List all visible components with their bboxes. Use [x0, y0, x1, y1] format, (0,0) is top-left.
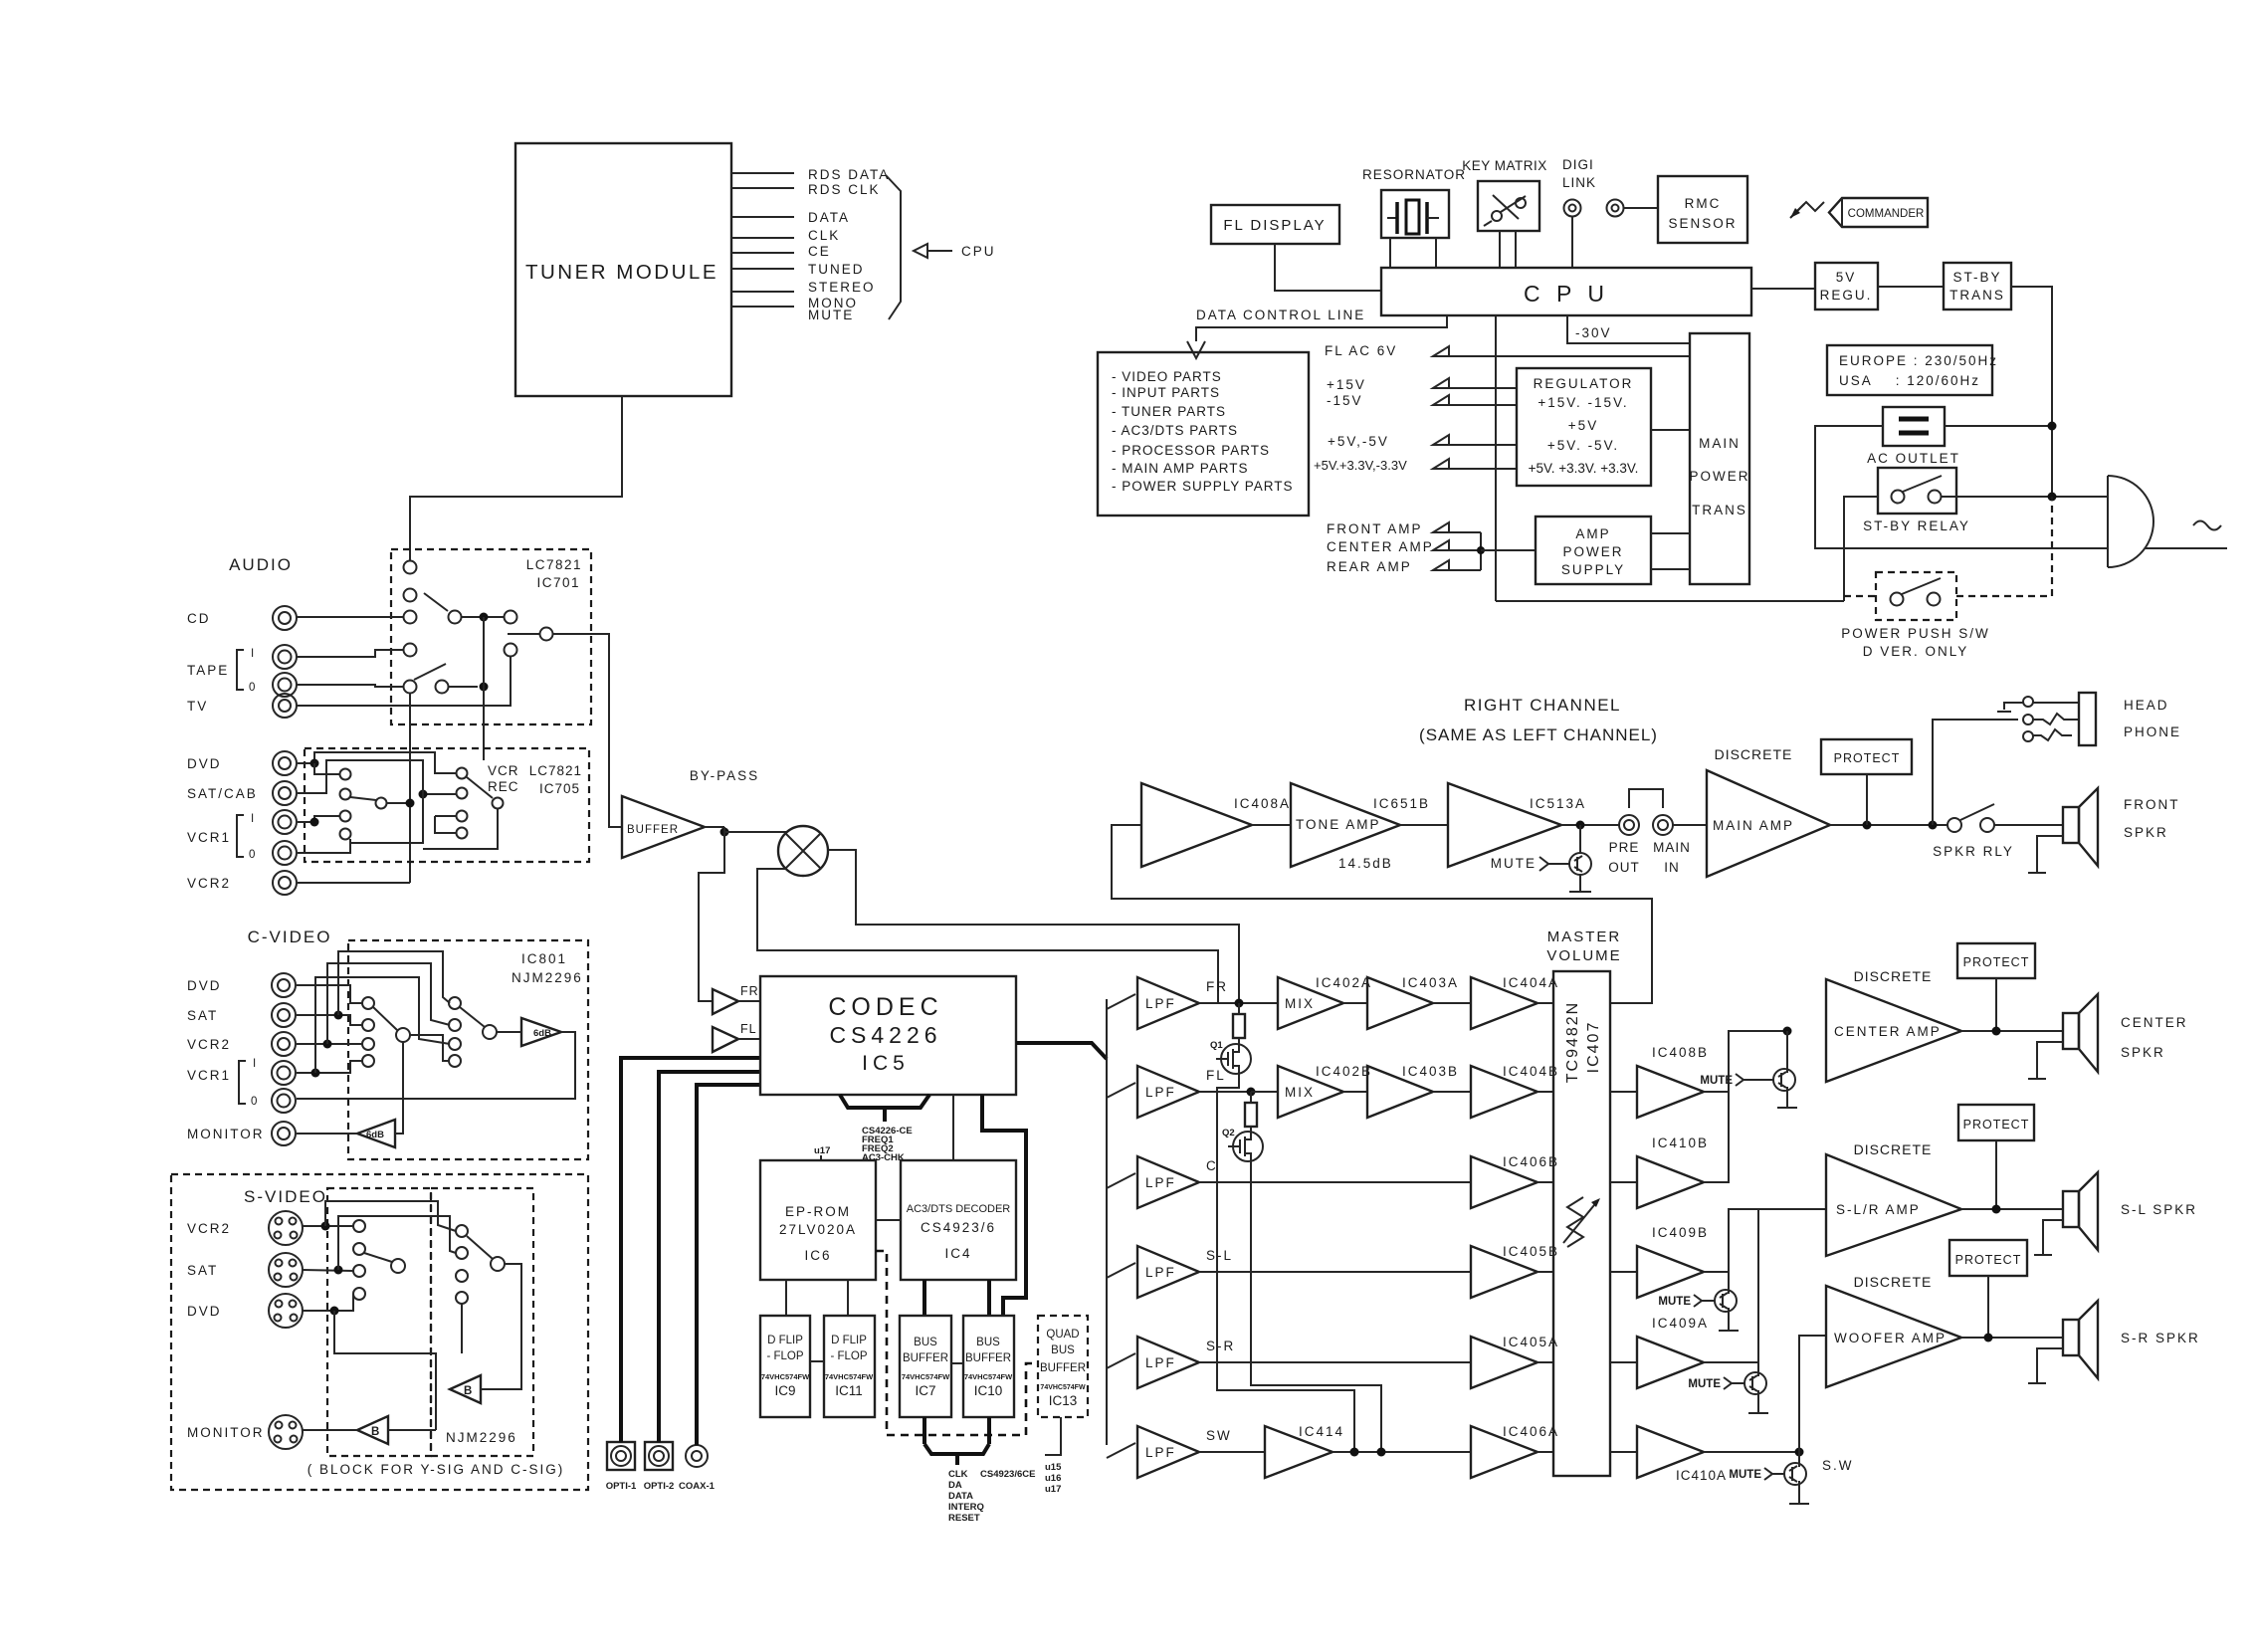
svg-text:IC701: IC701 [536, 575, 580, 590]
svg-text:INTERQ: INTERQ [948, 1502, 984, 1513]
wire RDS DATA [731, 167, 890, 182]
connector MAIN IN [1653, 815, 1691, 875]
block RMC SENSOR [1658, 176, 1747, 243]
box y-sig switch [327, 1188, 431, 1456]
wire CLK [731, 228, 840, 243]
connector DVD cvideo [187, 973, 296, 997]
svg-text:IC407: IC407 [1585, 1021, 1602, 1074]
wire CD input [297, 616, 403, 618]
wire IC705 internal mesh [298, 752, 498, 883]
svg-text:S-R: S-R [1206, 1339, 1235, 1353]
svg-text:DVD: DVD [187, 1304, 222, 1319]
connector OPTI-2 [644, 1442, 675, 1492]
bus dashed decoder host [876, 1251, 1038, 1435]
box c-sig switch [431, 1188, 533, 1456]
svg-text:FL: FL [1206, 1068, 1226, 1083]
wire regulator to trans [1651, 429, 1690, 431]
svg-text:DISCRETE: DISCRETE [1854, 1141, 1933, 1157]
connector DIGI LINK [1562, 157, 1596, 268]
amp 6dB monitor [357, 1120, 395, 1147]
svg-text:0: 0 [249, 682, 255, 694]
amp IC404A [1433, 975, 1559, 1029]
svg-text:DISCRETE: DISCRETE [1854, 968, 1933, 984]
connector RMC jack [1607, 200, 1659, 217]
amp IC408B [1610, 1045, 1709, 1118]
svg-text:AUDIO: AUDIO [229, 555, 293, 574]
svg-text:LPF: LPF [1145, 1175, 1176, 1190]
svg-text:QUAD: QUAD [1046, 1329, 1079, 1341]
svg-text:SPKR RLY: SPKR RLY [1933, 844, 2014, 859]
svg-text:TAPE: TAPE [187, 663, 229, 678]
svg-text:+5V,-5V: +5V,-5V [1328, 434, 1389, 449]
svg-text:BY-PASS: BY-PASS [690, 768, 759, 783]
connector TAPE 0 [273, 673, 297, 697]
amp IC409B [1610, 1225, 1709, 1298]
svg-text:IN: IN [1664, 860, 1680, 875]
wire CPU down bus [1495, 315, 1497, 601]
switch arms IC701 [414, 593, 448, 680]
svg-text:S-L/R AMP: S-L/R AMP [1836, 1202, 1921, 1217]
svg-text:AC3-CHK: AC3-CHK [862, 1152, 905, 1163]
wire 6dB loop to VCR1 out [297, 1032, 575, 1099]
svg-text:MONITOR: MONITOR [187, 1425, 265, 1440]
amp MIX IC402B [1251, 1064, 1372, 1118]
svg-text:6dB: 6dB [366, 1130, 384, 1140]
wire RDS CLK [731, 182, 881, 197]
svg-text:IC405A: IC405A [1503, 1335, 1559, 1349]
wire amp rails junction [1449, 532, 1536, 570]
wire Q2 to SW sum [1251, 1160, 1381, 1452]
plug AC mains [2108, 476, 2227, 567]
potentiometer master volume [1563, 1197, 1600, 1247]
svg-text:FL DISPLAY: FL DISPLAY [1223, 217, 1326, 234]
ic video switch IC801 NJM2296 [348, 940, 588, 1159]
wire Q1 to SW sum [1217, 1073, 1354, 1452]
transistor ic409b mute [1658, 1272, 1739, 1331]
label +15V -15V [1327, 377, 1517, 408]
block REGULATOR [1517, 368, 1651, 486]
svg-text:- MAIN AMP PARTS: - MAIN AMP PARTS [1112, 461, 1249, 476]
svg-text:Q1: Q1 [1210, 1040, 1223, 1051]
svg-text:IC408B: IC408B [1652, 1045, 1709, 1060]
lpf C [1107, 1156, 1218, 1208]
box s-video outer [171, 1174, 588, 1490]
transistor Q1 [1210, 1040, 1251, 1074]
speaker S-R SPKR [2028, 1301, 2200, 1383]
wire woofer feed [1704, 1336, 1826, 1457]
svg-text:IC410B: IC410B [1652, 1136, 1709, 1150]
note EUROPE USA frequency [1827, 345, 1998, 395]
svg-text:- FLOP: - FLOP [766, 1350, 803, 1362]
wire FL DISPLAY to CPU [1275, 244, 1381, 291]
svg-text:S.W: S.W [1822, 1458, 1854, 1473]
svg-text:( BLOCK FOR Y-SIG AND C-SIG): ( BLOCK FOR Y-SIG AND C-SIG) [307, 1462, 565, 1477]
svg-text:VCR1: VCR1 [187, 1068, 231, 1083]
svg-text:PROTECT: PROTECT [1963, 1118, 2030, 1132]
svg-text:+15V. -15V.: +15V. -15V. [1537, 395, 1628, 410]
svg-text:CS4923/6CE: CS4923/6CE [980, 1469, 1035, 1480]
resistor R-FL [1245, 1092, 1257, 1133]
resonator X701 [1362, 167, 1466, 238]
svg-text:MAIN AMP: MAIN AMP [1713, 818, 1794, 833]
wire svideo crossovers [325, 1201, 462, 1430]
svg-text:POWER: POWER [1689, 469, 1749, 484]
svg-text:SAT: SAT [187, 1008, 218, 1023]
svg-text:PRE: PRE [1609, 840, 1640, 855]
label block for y-sig [307, 1462, 565, 1477]
label VCR1 bracket cvideo [187, 1058, 257, 1108]
svg-text:IC408A: IC408A [1234, 796, 1291, 811]
svg-text:IC403A: IC403A [1402, 975, 1459, 990]
ic master volume TC9482N IC407 [1553, 971, 1610, 1476]
label DISCRETE woofer [1854, 1274, 1933, 1290]
wire eprom to decoder [876, 1219, 901, 1221]
wire quad buffer out [1045, 1417, 1062, 1495]
wire surround feed column [1704, 1209, 1826, 1362]
svg-text:ST-BY RELAY: ST-BY RELAY [1863, 518, 1970, 533]
wire STEREO [731, 280, 876, 295]
svg-text:+15V: +15V [1327, 377, 1366, 392]
svg-text:AMP: AMP [1575, 526, 1610, 541]
svg-text:S-L SPKR: S-L SPKR [2121, 1202, 2197, 1217]
amp FL adc buffer [713, 1022, 757, 1052]
connector TAPE I [273, 645, 297, 669]
svg-text:SAT: SAT [187, 1263, 218, 1278]
label AUDIO [229, 555, 293, 574]
svg-text:LINK: LINK [1562, 175, 1596, 190]
svg-text:BUFFER: BUFFER [903, 1352, 948, 1364]
svg-text:PHONE: PHONE [2124, 724, 2181, 739]
wire B csig loop [481, 1264, 521, 1389]
lpf S-R [1107, 1337, 1235, 1388]
svg-text:IC402B: IC402B [1316, 1064, 1372, 1079]
svg-text:MIX: MIX [1285, 996, 1315, 1011]
amp IC406B [1199, 1154, 1559, 1208]
svg-text:I: I [251, 813, 254, 825]
svg-text:- INPUT PARTS: - INPUT PARTS [1112, 385, 1220, 400]
svg-text:VCR: VCR [488, 763, 519, 778]
svg-text:RDS CLK: RDS CLK [808, 182, 881, 197]
svg-text:u17: u17 [814, 1145, 830, 1156]
svg-text:74VHC574FW: 74VHC574FW [761, 1372, 810, 1381]
amp TONE AMP IC651B [1252, 783, 1430, 871]
connector VCR1 I cvideo [272, 1061, 296, 1085]
wire tuner to audio switch [410, 396, 622, 560]
label DISCRETE main [1715, 746, 1793, 762]
speaker CENTER SPKR [2028, 994, 2188, 1079]
svg-text:74VHC574FW: 74VHC574FW [1040, 1384, 1086, 1391]
wire cvideo record loops [315, 951, 450, 1073]
wire power bottom line [1496, 600, 1844, 602]
svg-text:S-L: S-L [1206, 1248, 1233, 1263]
svg-text:u17: u17 [1045, 1484, 1061, 1495]
ic D FLIP-FLOP IC9 [760, 1316, 810, 1417]
block MAIN POWER TRANS [1689, 333, 1749, 584]
svg-text:- TUNER PARTS: - TUNER PARTS [1112, 404, 1226, 419]
svg-text:FRONT AMP: FRONT AMP [1327, 521, 1423, 536]
svg-text:IC4: IC4 [944, 1246, 971, 1261]
svg-text:IC10: IC10 [974, 1383, 1003, 1398]
svg-text:-30V: -30V [1575, 325, 1612, 340]
svg-text:D VER. ONLY: D VER. ONLY [1863, 644, 1969, 659]
svg-text:B: B [464, 1385, 472, 1397]
wire resonator pins [1390, 238, 1436, 268]
lpf S-L [1107, 1246, 1233, 1298]
svg-text:IC406A: IC406A [1503, 1424, 1559, 1439]
svg-text:LPF: LPF [1145, 1445, 1176, 1460]
lpf FR [1107, 977, 1228, 1029]
svg-text:REC: REC [488, 779, 519, 794]
connector VCR1 I [273, 810, 297, 834]
label FL AC 6V [1325, 343, 1690, 358]
connector VCR2 svideo [187, 1211, 303, 1245]
jack HEAD PHONE [1997, 693, 2181, 745]
svg-text:COMMANDER: COMMANDER [1848, 208, 1925, 220]
svg-text:(SAME AS LEFT CHANNEL): (SAME AS LEFT CHANNEL) [1419, 725, 1658, 744]
wire amp supply to trans [1651, 533, 1690, 569]
ic QUAD BUS BUFFER IC13 [1038, 1316, 1088, 1417]
svg-text:S-VIDEO: S-VIDEO [244, 1187, 327, 1206]
label NJM2296 svideo [446, 1430, 517, 1445]
svg-text:Q2: Q2 [1222, 1128, 1235, 1138]
connector CD [187, 606, 297, 630]
svg-text:74VHC574FW: 74VHC574FW [964, 1372, 1013, 1381]
amp WOOFER AMP [1826, 1286, 1961, 1387]
svg-text:FRONT: FRONT [2124, 797, 2180, 812]
svg-text:CPU: CPU [961, 244, 996, 259]
svg-text:C P U: C P U [1524, 281, 1609, 307]
svg-text:DISCRETE: DISCRETE [1854, 1274, 1933, 1290]
speaker FRONT SPKR [2028, 788, 2180, 873]
svg-text:OPTI-2: OPTI-2 [644, 1481, 675, 1492]
svg-text:IC9: IC9 [774, 1383, 795, 1398]
svg-text:DATA: DATA [948, 1491, 973, 1502]
svg-text:I: I [253, 1058, 256, 1070]
node FL junction [1199, 1088, 1278, 1097]
wire headphone feed [1933, 720, 2018, 825]
arrow CPU [914, 244, 996, 259]
label +5V -5V [1328, 434, 1517, 449]
label C-VIDEO [248, 928, 332, 946]
svg-text:- AC3/DTS PARTS: - AC3/DTS PARTS [1112, 423, 1238, 438]
connector OPTI-1 [606, 1442, 637, 1492]
switch arms IC705 [350, 777, 493, 800]
svg-text:REGU.: REGU. [1820, 288, 1873, 303]
wire center feed column [1704, 1027, 1792, 1183]
switch arms IC801 [373, 1007, 485, 1030]
bracket tuner signals [886, 175, 901, 319]
amp IC409A [1610, 1316, 1709, 1388]
svg-text:KEY MATRIX: KEY MATRIX [1462, 158, 1547, 173]
commander remote [1790, 198, 1928, 227]
svg-text:B: B [371, 1426, 379, 1438]
amp IC403B [1343, 1064, 1459, 1118]
svg-text:C: C [1206, 1158, 1218, 1173]
svg-text:CLK: CLK [948, 1469, 968, 1480]
wire IC701 output to buffer [508, 634, 622, 827]
block PROTECT s-l [1958, 1105, 2034, 1209]
node buffer out [705, 827, 729, 837]
transistor sw mute [1729, 1452, 1853, 1504]
svg-text:TRANS: TRANS [1949, 288, 2005, 303]
svg-text:- FLOP: - FLOP [830, 1350, 867, 1362]
wire flipflop links [810, 1361, 963, 1363]
label +5V +3.3V -3.3V [1314, 458, 1517, 473]
block PROTECT front [1821, 739, 1912, 825]
label codec control signals [862, 1126, 913, 1163]
svg-text:FR: FR [1206, 979, 1228, 994]
svg-text:BUFFER: BUFFER [965, 1352, 1011, 1364]
svg-text:LC7821: LC7821 [529, 763, 582, 778]
svg-text:SUPPLY: SUPPLY [1561, 562, 1625, 577]
wire buffer to mixer [724, 831, 786, 833]
svg-text:TONE AMP: TONE AMP [1296, 817, 1381, 832]
amp B csig [450, 1375, 481, 1403]
relay SPKR RLY [1933, 804, 2064, 859]
wire dashed push switch link [1844, 497, 2052, 596]
connector PRE OUT [1608, 815, 1640, 875]
label S-VIDEO [244, 1187, 327, 1206]
svg-text:BUS: BUS [976, 1337, 1000, 1348]
svg-text:MAIN: MAIN [1699, 436, 1741, 451]
svg-text:RIGHT CHANNEL: RIGHT CHANNEL [1464, 696, 1621, 715]
wire AC outlet loop [1815, 422, 2108, 549]
block TUNER MODULE [515, 143, 731, 396]
svg-text:27LV020A: 27LV020A [779, 1222, 857, 1237]
svg-text:VCR1: VCR1 [187, 830, 231, 845]
svg-text:RMC: RMC [1685, 196, 1722, 211]
amp IC513A [1400, 783, 1586, 867]
svg-text:VCR2: VCR2 [187, 1221, 231, 1236]
ic BUS BUFFER IC10 [963, 1316, 1014, 1417]
svg-text:MUTE: MUTE [1729, 1469, 1761, 1481]
wire IC701 internal node [449, 613, 504, 761]
svg-text:DATA: DATA [808, 210, 850, 225]
svg-text:IC402A: IC402A [1316, 975, 1372, 990]
svg-text:TUNER MODULE: TUNER MODULE [525, 261, 718, 284]
svg-text:MIX: MIX [1285, 1085, 1315, 1100]
svg-text:TUNED: TUNED [808, 262, 865, 277]
svg-text:IC513A: IC513A [1530, 796, 1586, 811]
svg-text:IC5: IC5 [862, 1052, 910, 1075]
svg-text:IC13: IC13 [1049, 1393, 1078, 1408]
svg-text:WOOFER AMP: WOOFER AMP [1834, 1331, 1947, 1345]
svg-text:IC409A: IC409A [1652, 1316, 1709, 1331]
transistor main mute [1491, 825, 1591, 892]
svg-text:CS4226: CS4226 [829, 1022, 941, 1048]
svg-text:BUS: BUS [914, 1337, 937, 1348]
wire key matrix pins [1500, 231, 1516, 268]
svg-text:0: 0 [249, 849, 255, 861]
amp IC408A [1141, 783, 1291, 867]
wire B monitor [303, 1429, 436, 1431]
block AMP POWER SUPPLY [1536, 516, 1651, 584]
amp B monitor [357, 1416, 388, 1444]
svg-text:PROTECT: PROTECT [1963, 955, 2030, 969]
svg-text:D FLIP: D FLIP [767, 1335, 803, 1346]
svg-text:S-R SPKR: S-R SPKR [2121, 1331, 2200, 1345]
svg-text:EP-ROM: EP-ROM [785, 1204, 851, 1219]
wire digital buses [621, 1058, 760, 1445]
svg-text:-15V: -15V [1327, 393, 1363, 408]
amp MIX IC402A [1278, 975, 1372, 1029]
svg-text:FR: FR [740, 984, 759, 998]
label DISCRETE center [1854, 968, 1933, 984]
svg-text:CE: CE [808, 244, 831, 259]
connector DVD audio [187, 751, 297, 775]
connector VCR1 0 cvideo [272, 1089, 296, 1113]
lpf FL [1107, 1066, 1226, 1118]
svg-text:14.5dB: 14.5dB [1338, 856, 1393, 871]
svg-text:SPKR: SPKR [2121, 1045, 2165, 1060]
switch pins svideo right [456, 1225, 505, 1304]
wire relay left leg [1844, 497, 1878, 601]
amp IC410B [1610, 1136, 1709, 1208]
svg-text:BUS: BUS [1051, 1344, 1075, 1356]
svg-text:NJM2296: NJM2296 [446, 1430, 517, 1445]
wire cvideo inputs [297, 985, 362, 1078]
amp S-L/R AMP [1826, 1154, 1961, 1256]
svg-text:- POWER SUPPLY PARTS: - POWER SUPPLY PARTS [1112, 479, 1294, 494]
svg-text:MUTE: MUTE [1700, 1075, 1733, 1087]
svg-text:6dB: 6dB [533, 1028, 551, 1039]
svg-text:OUT: OUT [1608, 860, 1640, 875]
label VCR1 bracket [187, 813, 255, 861]
bus codec to bus buffer [982, 1095, 1026, 1316]
wire CPU to 5V regu [1751, 288, 1815, 290]
bus lpf feed column [1106, 999, 1108, 1445]
connector MONITOR svideo [187, 1415, 303, 1449]
block PROTECT center [1957, 943, 2035, 1031]
wire DATA [731, 210, 850, 225]
svg-text:OPTI-1: OPTI-1 [606, 1481, 637, 1492]
svg-text:D FLIP: D FLIP [831, 1335, 867, 1346]
svg-text:+5V: +5V [1568, 418, 1598, 433]
connector SAT svideo [187, 1253, 303, 1287]
svg-text:DATA CONTROL LINE: DATA CONTROL LINE [1196, 308, 1365, 322]
svg-text:IC7: IC7 [915, 1383, 935, 1398]
ic D FLIP-FLOP IC11 [824, 1316, 875, 1417]
wire woofer out [1961, 1334, 2063, 1342]
svg-text:VCR2: VCR2 [187, 876, 231, 891]
svg-text:74VHC574FW: 74VHC574FW [902, 1372, 950, 1381]
bracket preout jumper [1629, 789, 1663, 808]
svg-text:- VIDEO PARTS: - VIDEO PARTS [1112, 369, 1222, 384]
svg-text:COAX-1: COAX-1 [679, 1481, 716, 1492]
wire CE [731, 244, 831, 259]
amp 6dB record [521, 1018, 561, 1046]
svg-text:MUTE: MUTE [1688, 1378, 1721, 1390]
switch POWER PUSH S/W [1841, 572, 1990, 659]
connector VCR2 audio [187, 871, 297, 895]
svg-text:CLK: CLK [808, 228, 840, 243]
wire TUNED [731, 262, 865, 277]
label FRONT CENTER REAR AMP [1327, 521, 1449, 574]
connector TV [187, 694, 297, 718]
svg-text:BUFFER: BUFFER [1040, 1362, 1086, 1374]
label bus signals [948, 1469, 1035, 1524]
connector COAX-1 [679, 1445, 716, 1492]
svg-text:LPF: LPF [1145, 1355, 1176, 1370]
svg-text:IC405B: IC405B [1503, 1244, 1559, 1259]
svg-text:MUTE: MUTE [808, 308, 854, 322]
wire main amp out [1830, 821, 1947, 830]
wire TAPE I input [297, 650, 403, 657]
wire monitor 6dB [297, 1042, 403, 1134]
relay ST-BY RELAY [1863, 468, 1970, 533]
svg-text:IC801: IC801 [521, 951, 567, 966]
node preout junction [1561, 821, 1619, 830]
